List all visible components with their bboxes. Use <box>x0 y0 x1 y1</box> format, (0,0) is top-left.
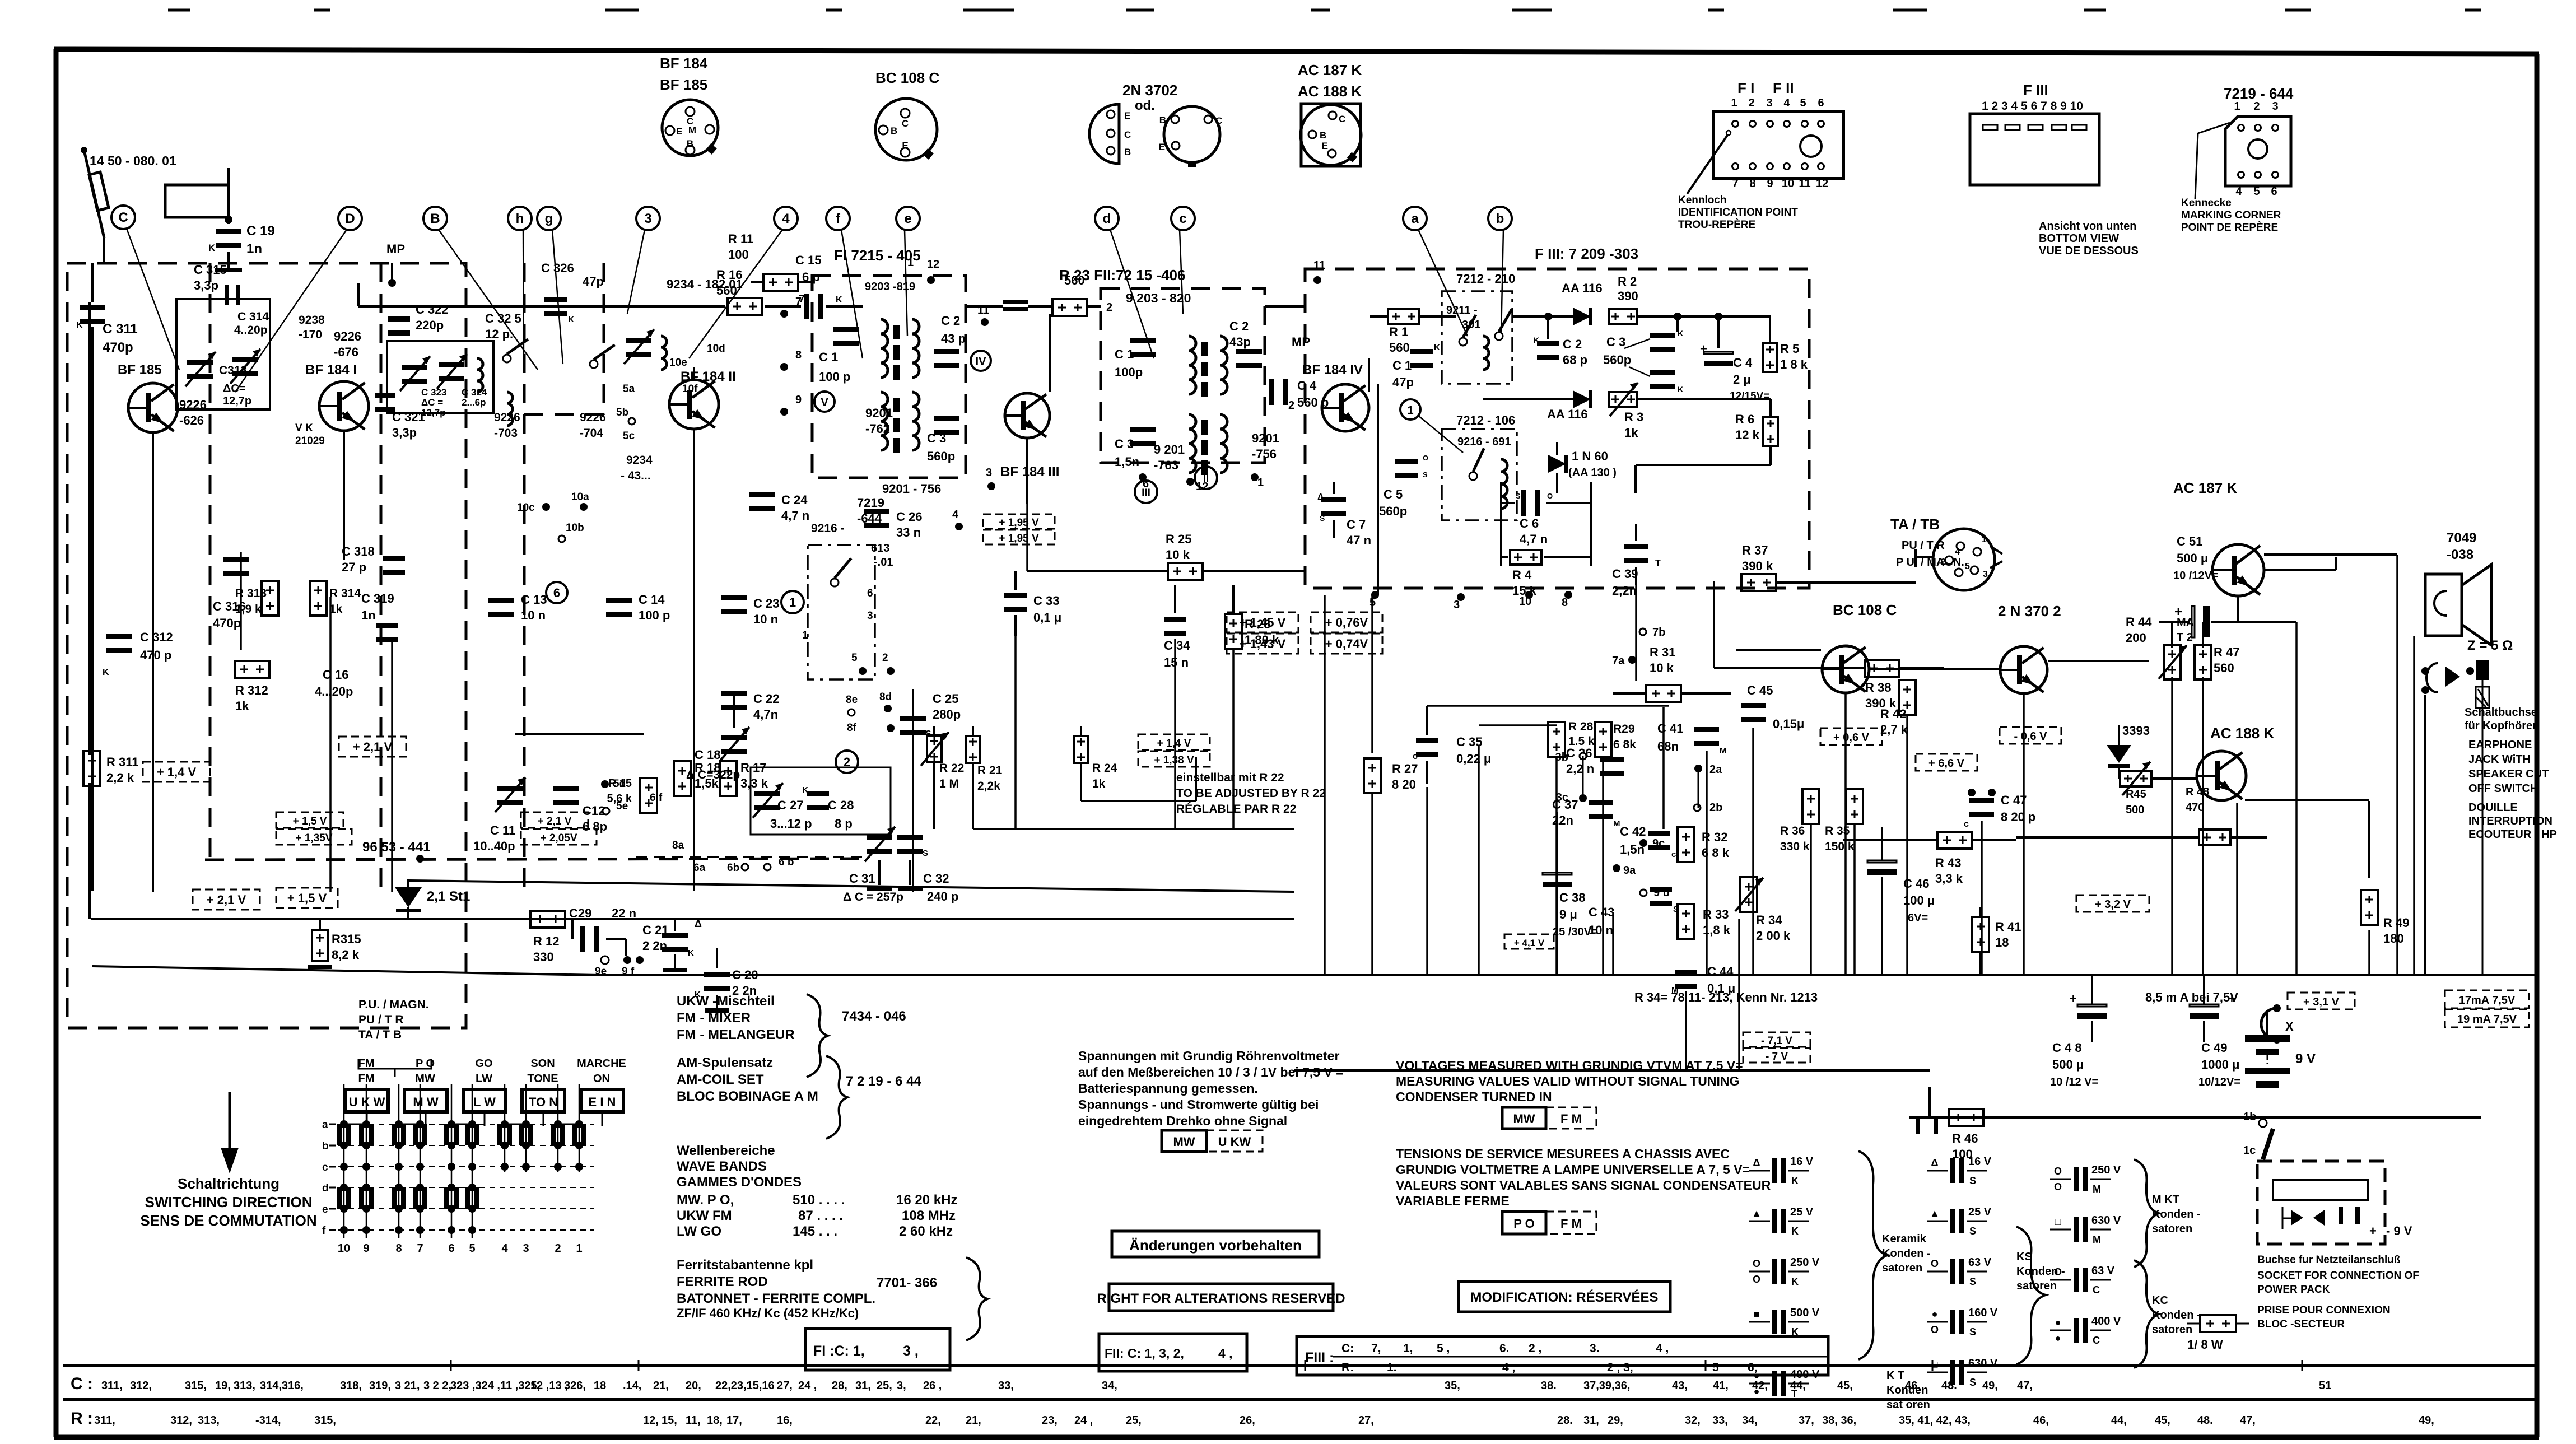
svg-text:AC 187 K: AC 187 K <box>1298 62 1362 78</box>
svg-text:BF 184 III: BF 184 III <box>1000 464 1059 479</box>
svg-text:1 N 60: 1 N 60 <box>1572 449 1608 463</box>
svg-text:C 2: C 2 <box>941 314 960 328</box>
svg-text:5c: 5c <box>623 430 635 442</box>
svg-text:12,7p: 12,7p <box>223 395 251 407</box>
svg-text:S: S <box>1969 1175 1976 1186</box>
svg-text:6a: 6a <box>693 862 706 874</box>
svg-text:1: 1 <box>1982 535 1987 544</box>
svg-text:FERRITE ROD: FERRITE ROD <box>677 1274 768 1289</box>
svg-text:+ 1,95 V: + 1,95 V <box>999 533 1039 544</box>
svg-text:2 N 370 2: 2 N 370 2 <box>1998 603 2061 619</box>
svg-text:1k: 1k <box>235 699 249 713</box>
svg-text:4: 4 <box>782 211 790 226</box>
svg-text:16,: 16, <box>777 1414 793 1427</box>
svg-text:1c: 1c <box>2243 1144 2256 1157</box>
svg-text:S: S <box>1969 1326 1976 1338</box>
svg-text:VALEURS SONT VALABLES SANS: VALEURS SONT VALABLES SANS SIGNAL CONDEN… <box>1396 1178 1771 1193</box>
svg-text:E: E <box>1322 141 1328 151</box>
svg-text:.14,: .14, <box>623 1380 641 1392</box>
svg-text:100 p: 100 p <box>819 370 850 384</box>
svg-text:+ 1,5 V: + 1,5 V <box>293 816 327 827</box>
svg-text:330: 330 <box>533 950 554 964</box>
svg-text:POINT DE REPÈRE: POINT DE REPÈRE <box>2181 221 2278 234</box>
svg-text:einstellbar mit R 22: einstellbar mit R 22 <box>1176 771 1284 784</box>
svg-text:+ 2,1 V: + 2,1 V <box>207 893 246 907</box>
svg-text:38.: 38. <box>1541 1380 1557 1392</box>
svg-text:+ 1,95 V: + 1,95 V <box>999 517 1039 529</box>
svg-text:R 42: R 42 <box>1880 707 1906 721</box>
svg-text:8: 8 <box>795 349 802 361</box>
svg-text:R 311: R 311 <box>106 755 139 769</box>
svg-text:25,: 25, <box>1126 1414 1142 1427</box>
svg-text:K: K <box>103 668 109 677</box>
svg-text:+ 6,6 V: + 6,6 V <box>1928 757 1965 770</box>
svg-text:T: T <box>1655 558 1661 568</box>
svg-text:OFF SWITCH: OFF SWITCH <box>2468 782 2538 795</box>
svg-text:R 32: R 32 <box>1702 830 1727 844</box>
svg-text:K: K <box>688 948 694 958</box>
svg-text:3,: 3, <box>897 1380 906 1392</box>
svg-text:27,: 27, <box>1358 1414 1374 1427</box>
svg-text:5: 5 <box>2253 185 2260 198</box>
svg-text:312,: 312, <box>130 1380 152 1392</box>
svg-text:MP: MP <box>1292 335 1310 349</box>
svg-text:31,: 31, <box>855 1380 871 1392</box>
svg-text:35, 41, 42, 43,: 35, 41, 42, 43, <box>1899 1414 1971 1427</box>
svg-text:C 11: C 11 <box>490 823 515 837</box>
svg-text:6: 6 <box>867 588 873 599</box>
svg-text:16 V: 16 V <box>1790 1156 1814 1168</box>
svg-text:47p: 47p <box>1392 375 1414 389</box>
svg-text:III: III <box>1142 487 1150 499</box>
svg-text:7: 7 <box>795 296 802 308</box>
svg-text:BF 184: BF 184 <box>660 55 708 72</box>
svg-text:3.: 3. <box>1590 1342 1600 1355</box>
svg-text:- 7,1 V: - 7,1 V <box>1761 1035 1792 1047</box>
svg-text:5,6 k: 5,6 k <box>607 793 632 805</box>
svg-text:6b: 6b <box>727 862 739 874</box>
svg-text:VOLTAGES MEASURED WITH GRUN: VOLTAGES MEASURED WITH GRUNDIG VTVM AT 7… <box>1396 1058 1743 1073</box>
svg-text:2,2n: 2,2n <box>1612 584 1637 598</box>
svg-text:9c: 9c <box>1652 837 1665 850</box>
svg-text:31,: 31, <box>1583 1414 1599 1427</box>
svg-text:43 p: 43 p <box>941 332 966 346</box>
svg-text:R 43: R 43 <box>1935 856 1961 870</box>
svg-text:1: 1 <box>1407 404 1413 417</box>
svg-text:8a: 8a <box>672 840 684 851</box>
svg-text:Batteriespannung gemessen.: Batteriespannung gemessen. <box>1078 1081 1258 1096</box>
svg-text:C: C <box>2093 1335 2100 1346</box>
svg-text:BF 185: BF 185 <box>118 362 162 378</box>
svg-text:+ 0,74V: + 0,74V <box>1325 637 1368 651</box>
svg-text:AA 116: AA 116 <box>1562 281 1603 295</box>
svg-text:Kennloch: Kennloch <box>1678 194 1727 206</box>
svg-text:2N 3702: 2N 3702 <box>1122 82 1177 99</box>
svg-text:2,1 St1: 2,1 St1 <box>427 889 470 904</box>
svg-text:400 V: 400 V <box>1790 1368 1820 1381</box>
svg-text:318,: 318, <box>340 1380 362 1392</box>
svg-text:313,: 313, <box>234 1380 255 1392</box>
svg-text:6: 6 <box>553 586 560 600</box>
svg-text:4...20p: 4...20p <box>315 684 353 698</box>
svg-text:47,: 47, <box>2240 1414 2256 1427</box>
svg-text:C 7: C 7 <box>1347 518 1366 532</box>
svg-text:3,3 k: 3,3 k <box>1935 872 1963 886</box>
svg-text:5: 5 <box>1800 97 1806 109</box>
svg-text:311,: 311, <box>101 1380 123 1392</box>
svg-text:1 M: 1 M <box>939 777 959 790</box>
svg-text:R 38: R 38 <box>1865 681 1891 695</box>
svg-text:22,23,15,16: 22,23,15,16 <box>715 1380 775 1392</box>
svg-text:C 27: C 27 <box>777 798 803 812</box>
svg-text:POWER PACK: POWER PACK <box>2257 1284 2330 1296</box>
svg-text:9226: 9226 <box>580 411 606 424</box>
svg-text:8: 8 <box>395 1242 402 1255</box>
svg-text:8 20: 8 20 <box>1392 777 1416 791</box>
svg-text:MW: MW <box>1173 1135 1195 1149</box>
svg-text:26 ,: 26 , <box>923 1380 942 1392</box>
svg-text:4,7n: 4,7n <box>753 707 778 721</box>
svg-text:33,: 33, <box>1712 1414 1728 1427</box>
svg-text:12: 12 <box>927 258 939 271</box>
svg-text:R 4: R 4 <box>1512 568 1532 582</box>
svg-text:-676: -676 <box>334 345 358 359</box>
svg-text:51: 51 <box>2319 1380 2331 1392</box>
svg-text:0,15μ: 0,15μ <box>1773 717 1804 731</box>
svg-text:E: E <box>1159 142 1165 152</box>
svg-text:2: 2 <box>1288 399 1294 412</box>
svg-text:311,: 311, <box>94 1414 115 1427</box>
svg-text:O: O <box>2054 1181 2062 1193</box>
svg-text:FM: FM <box>358 1058 375 1070</box>
svg-text:+ 1,35V: + 1,35V <box>295 832 332 844</box>
svg-text:R 21: R 21 <box>977 764 1003 777</box>
svg-text:220p: 220p <box>416 318 444 332</box>
svg-text:R :: R : <box>71 1409 93 1428</box>
svg-text:M KT: M KT <box>2152 1194 2179 1206</box>
svg-text:PU / T R: PU / T R <box>358 1013 404 1026</box>
svg-text:12: 12 <box>1816 178 1828 190</box>
svg-text:K: K <box>1534 336 1539 344</box>
svg-text:B: B <box>891 125 897 136</box>
svg-text:P O: P O <box>1513 1217 1535 1231</box>
svg-text:7: 7 <box>1732 178 1738 190</box>
svg-text:M: M <box>2093 1184 2101 1195</box>
svg-text:Buchse fur Netzteilanschluß: Buchse fur Netzteilanschluß <box>2257 1254 2401 1266</box>
svg-text:K: K <box>836 295 842 305</box>
svg-text:Δ: Δ <box>1753 1157 1760 1168</box>
svg-text:470p: 470p <box>103 340 133 355</box>
svg-text:FM - MIXER: FM - MIXER <box>677 1010 751 1026</box>
svg-text:e: e <box>904 211 911 226</box>
svg-text:-314,: -314, <box>255 1414 281 1427</box>
svg-text:2 μ: 2 μ <box>1733 372 1751 386</box>
svg-text:IV: IV <box>976 356 987 368</box>
svg-text:180: 180 <box>2383 931 2404 945</box>
svg-text:Ferritstabantenne kpl: Ferritstabantenne kpl <box>677 1257 813 1273</box>
svg-text:9226: 9226 <box>334 329 361 343</box>
svg-text:C 44: C 44 <box>1707 965 1734 979</box>
svg-text:1 8 k: 1 8 k <box>1780 357 1808 371</box>
svg-text:C: C <box>1215 115 1222 126</box>
svg-text:C 1: C 1 <box>819 350 838 364</box>
svg-text:C: C <box>2093 1284 2100 1296</box>
svg-text:IDENTIFICATION POINT: IDENTIFICATION POINT <box>1678 207 1798 218</box>
svg-text:K: K <box>1791 1276 1799 1287</box>
svg-text:3,3p: 3,3p <box>392 426 417 440</box>
svg-text:UKW -Mischteil: UKW -Mischteil <box>677 994 775 1009</box>
svg-text:S: S <box>923 849 928 858</box>
svg-text:F M: F M <box>1560 1112 1582 1126</box>
svg-text:C 4: C 4 <box>1733 356 1753 370</box>
svg-text:R:: R: <box>1341 1361 1354 1374</box>
svg-text:240 p: 240 p <box>927 889 958 903</box>
svg-text:315,: 315, <box>185 1380 207 1392</box>
svg-text:47 n: 47 n <box>1347 533 1371 547</box>
svg-text:C: C <box>118 210 128 225</box>
svg-text:18,: 18, <box>707 1414 723 1427</box>
svg-text:V K: V K <box>295 422 313 434</box>
svg-text:c: c <box>1413 752 1418 761</box>
svg-text:M: M <box>1613 819 1620 828</box>
svg-text:Konden -: Konden - <box>2152 1208 2201 1221</box>
svg-text:BATONNET - FERRITE COMPL.: BATONNET - FERRITE COMPL. <box>677 1291 875 1306</box>
svg-text:2: 2 <box>2253 100 2260 113</box>
svg-text:47p: 47p <box>583 274 604 288</box>
svg-text:43p: 43p <box>1229 335 1251 349</box>
svg-text:3 21,: 3 21, <box>395 1380 420 1392</box>
svg-text:3 ,: 3 , <box>903 1343 919 1359</box>
svg-text:10c: 10c <box>517 502 535 514</box>
svg-text:E: E <box>902 140 908 151</box>
svg-text:BC 108 C: BC 108 C <box>1833 602 1897 618</box>
svg-text:1: 1 <box>2234 100 2240 113</box>
svg-text:63 V: 63 V <box>2091 1265 2115 1277</box>
svg-text:4 ,: 4 , <box>1502 1361 1515 1374</box>
svg-text:FM - MELANGEUR: FM - MELANGEUR <box>677 1027 795 1042</box>
svg-text:Änderungen vorbehalten: Änderungen vorbehalten <box>1129 1237 1302 1254</box>
svg-text:9 203 - 820: 9 203 - 820 <box>1126 291 1191 305</box>
svg-text:ON: ON <box>593 1073 610 1085</box>
svg-text:2 60 kHz: 2 60 kHz <box>899 1224 953 1239</box>
svg-text:38, 36,: 38, 36, <box>1822 1414 1856 1427</box>
svg-text:25 /30V=: 25 /30V= <box>1553 926 1598 938</box>
svg-text:AM-Spulensatz: AM-Spulensatz <box>677 1055 773 1070</box>
svg-text:C :: C : <box>71 1375 93 1393</box>
svg-text:19,: 19, <box>215 1380 231 1392</box>
svg-text:510 . . . .: 510 . . . . <box>793 1193 845 1208</box>
svg-text:O: O <box>1753 1274 1760 1285</box>
svg-text:2 ,: 2 , <box>1529 1342 1541 1355</box>
svg-text:FIII :: FIII : <box>1305 1350 1334 1366</box>
svg-text:1 2 3 4 5 6 7 8 9 1: 1 2 3 4 5 6 7 8 9 10 <box>1982 100 2083 113</box>
svg-text:5: 5 <box>1712 1361 1719 1374</box>
svg-text:9a: 9a <box>1623 864 1636 877</box>
svg-text:RIGHT FOR ALTERATIONS RESER: RIGHT FOR ALTERATIONS RESERVED <box>1097 1291 1345 1306</box>
svg-text:BF 184 I: BF 184 I <box>305 362 357 378</box>
svg-text:R 3: R 3 <box>1624 410 1643 424</box>
svg-text:+ 1,38 V: + 1,38 V <box>1154 754 1194 766</box>
svg-text:□: □ <box>1932 1359 1938 1370</box>
svg-text:100p: 100p <box>1115 365 1143 379</box>
svg-text:630 V: 630 V <box>2091 1214 2121 1227</box>
svg-text:R 1: R 1 <box>1389 325 1408 339</box>
svg-text:Konden -: Konden - <box>2152 1309 2201 1321</box>
svg-text:●: ● <box>1932 1308 1938 1320</box>
svg-text:8 20 p: 8 20 p <box>2001 810 2035 824</box>
svg-text:BLOC -SECTEUR: BLOC -SECTEUR <box>2257 1319 2345 1330</box>
svg-text:8 p: 8 p <box>835 817 853 831</box>
svg-text:326,: 326, <box>564 1380 586 1392</box>
svg-text:C 41: C 41 <box>1657 721 1683 735</box>
svg-text:AC 188 K: AC 188 K <box>2210 725 2274 742</box>
svg-text:2 00 k: 2 00 k <box>1756 929 1791 943</box>
svg-text:12 ,13 ,: 12 ,13 , <box>530 1380 568 1392</box>
svg-text:1k: 1k <box>1624 426 1638 440</box>
svg-text:M: M <box>688 125 696 136</box>
svg-text:AC 188 K: AC 188 K <box>1298 83 1362 100</box>
svg-text:KS: KS <box>2016 1251 2032 1263</box>
svg-text:6.: 6. <box>1499 1342 1510 1355</box>
svg-text:●: ● <box>1754 1370 1760 1381</box>
svg-text:1.5 k: 1.5 k <box>1568 735 1595 748</box>
svg-text:K: K <box>76 320 83 330</box>
svg-text:+: + <box>2070 991 2077 1005</box>
svg-text:3: 3 <box>2272 100 2278 113</box>
svg-text:560p: 560p <box>927 449 955 463</box>
svg-text:c: c <box>1179 211 1186 226</box>
svg-text:R 24: R 24 <box>1092 762 1117 775</box>
svg-text:28.: 28. <box>1557 1414 1573 1427</box>
svg-text:C12: C12 <box>583 804 605 818</box>
svg-text:6: 6 <box>1818 97 1824 109</box>
svg-text:C 19: C 19 <box>246 223 275 239</box>
svg-text:F III: F III <box>2023 82 2048 99</box>
svg-text:c: c <box>1671 850 1676 859</box>
svg-text:VUE DE DESSOUS: VUE DE DESSOUS <box>2039 245 2139 257</box>
svg-text:S: S <box>1969 1276 1976 1287</box>
svg-text:17,: 17, <box>726 1414 742 1427</box>
svg-text:24 ,: 24 , <box>798 1380 817 1392</box>
svg-text:+ 2,1 V: + 2,1 V <box>353 740 393 754</box>
svg-text:C 14: C 14 <box>639 593 665 607</box>
svg-text:●: ● <box>1754 1386 1760 1397</box>
svg-text:P.U. / MAGN.: P.U. / MAGN. <box>358 998 429 1011</box>
svg-text:C 15: C 15 <box>795 253 821 267</box>
svg-text:FII: C: 1, 3, 2,: FII: C: 1, 3, 2, <box>1105 1346 1184 1361</box>
svg-text:9238: 9238 <box>299 314 325 327</box>
svg-text:8e: 8e <box>846 694 858 706</box>
svg-text:R 23 FII:72 15 -406: R 23 FII:72 15 -406 <box>1059 267 1185 283</box>
svg-text:B: B <box>687 138 693 149</box>
svg-text:11,: 11, <box>686 1414 701 1427</box>
svg-text:6: 6 <box>448 1242 454 1255</box>
svg-text:7434 - 046: 7434 - 046 <box>842 1009 906 1024</box>
svg-text:1: 1 <box>789 595 796 609</box>
svg-text:sat oren: sat oren <box>1886 1399 1930 1411</box>
svg-text:1n: 1n <box>246 241 262 257</box>
svg-text:Spannungs - und Stromwerte: Spannungs - und Stromwerte gültig bei <box>1078 1097 1319 1112</box>
svg-text:-763: -763 <box>1154 458 1178 472</box>
svg-text:17mA 7,5V: 17mA 7,5V <box>2459 994 2516 1007</box>
svg-text:+ 1,4 V: + 1,4 V <box>1157 738 1191 749</box>
svg-text:Ansicht von unten: Ansicht von unten <box>2039 220 2136 232</box>
svg-text:F I: F I <box>1737 80 1754 96</box>
svg-text:SWITCHING DIRECTION: SWITCHING DIRECTION <box>145 1194 313 1210</box>
svg-text:1: 1 <box>1731 97 1737 109</box>
svg-text:C 16: C 16 <box>323 668 348 682</box>
svg-text:4: 4 <box>1955 547 1960 557</box>
svg-text:JACK WiTH: JACK WiTH <box>2468 753 2531 766</box>
svg-text:C: C <box>1124 129 1131 140</box>
svg-text:für Kopfhörer: für Kopfhörer <box>2465 720 2537 732</box>
svg-text:24 ,: 24 , <box>1074 1414 1093 1427</box>
svg-text:9216 - 691: 9216 - 691 <box>1457 436 1511 448</box>
svg-text:R 22: R 22 <box>939 762 964 775</box>
svg-text:-703: -703 <box>494 427 518 440</box>
svg-text:BF 184 IV: BF 184 IV <box>1302 362 1363 378</box>
svg-text:C 43: C 43 <box>1589 905 1614 919</box>
svg-text:R 312: R 312 <box>235 683 268 697</box>
svg-text:R 34= 78 11- 213, Kenn Nr. 1: R 34= 78 11- 213, Kenn Nr. 1213 <box>1634 990 1818 1004</box>
svg-text:25 V: 25 V <box>1790 1206 1814 1218</box>
svg-text:560: 560 <box>1389 341 1410 355</box>
svg-text:12,: 12, <box>643 1414 659 1427</box>
svg-text:Schaltbuchse: Schaltbuchse <box>2465 706 2537 719</box>
svg-text:68n: 68n <box>1657 739 1679 753</box>
svg-text:22n: 22n <box>1552 813 1573 827</box>
svg-text:630 V: 630 V <box>1968 1357 1998 1370</box>
svg-text:C 5: C 5 <box>1384 487 1403 501</box>
svg-text:34,: 34, <box>1102 1380 1117 1392</box>
svg-text:48.: 48. <box>2197 1414 2213 1427</box>
svg-text:6: 6 <box>2271 185 2277 198</box>
svg-text:4,7 n: 4,7 n <box>1520 532 1548 546</box>
svg-text:M: M <box>2093 1234 2101 1245</box>
svg-text:Wellenbereiche: Wellenbereiche <box>677 1143 775 1158</box>
svg-text:SPEAKER CUT: SPEAKER CUT <box>2468 768 2549 780</box>
svg-text:-756: -756 <box>1252 447 1277 461</box>
svg-text:C 31: C 31 <box>849 872 875 886</box>
svg-text:8f: 8f <box>847 722 857 734</box>
svg-text:27 p: 27 p <box>342 560 366 574</box>
svg-text:FI :C: 1,: FI :C: 1, <box>813 1343 865 1359</box>
svg-text:RÉGLABLE PAR R 22: RÉGLABLE PAR R 22 <box>1176 803 1296 816</box>
svg-text:7219 - 644: 7219 - 644 <box>2224 85 2294 102</box>
svg-text:4: 4 <box>2235 185 2242 198</box>
svg-text:7,: 7, <box>1371 1342 1381 1355</box>
svg-text:+ 4,1 V: + 4,1 V <box>1514 938 1545 948</box>
svg-text:C313: C313 <box>219 364 247 377</box>
svg-text:3: 3 <box>1454 599 1460 611</box>
svg-text:2: 2 <box>1106 301 1112 314</box>
svg-text:2,2 n: 2,2 n <box>1566 762 1594 776</box>
svg-text:3: 3 <box>1983 570 1988 579</box>
svg-text:Konden -: Konden - <box>1882 1247 1931 1260</box>
svg-text:560: 560 <box>2214 661 2234 675</box>
svg-text:K: K <box>1678 385 1683 394</box>
svg-text:Kennecke: Kennecke <box>2181 197 2232 209</box>
svg-text:9 201: 9 201 <box>1154 442 1185 457</box>
svg-text:-626: -626 <box>179 413 204 427</box>
svg-text:25,: 25, <box>877 1380 892 1392</box>
svg-text:9: 9 <box>1767 178 1773 190</box>
svg-text:5b: 5b <box>616 407 628 418</box>
svg-text:21,: 21, <box>966 1414 981 1427</box>
svg-text:Spannungen mit Grundig Röhr: Spannungen mit Grundig Röhrenvoltmeter <box>1078 1049 1339 1063</box>
svg-text:auf den Meßbereichen 10 / 3: auf den Meßbereichen 10 / 3 / 1V bei 7,5… <box>1078 1065 1344 1079</box>
svg-text:K: K <box>1791 1226 1799 1237</box>
